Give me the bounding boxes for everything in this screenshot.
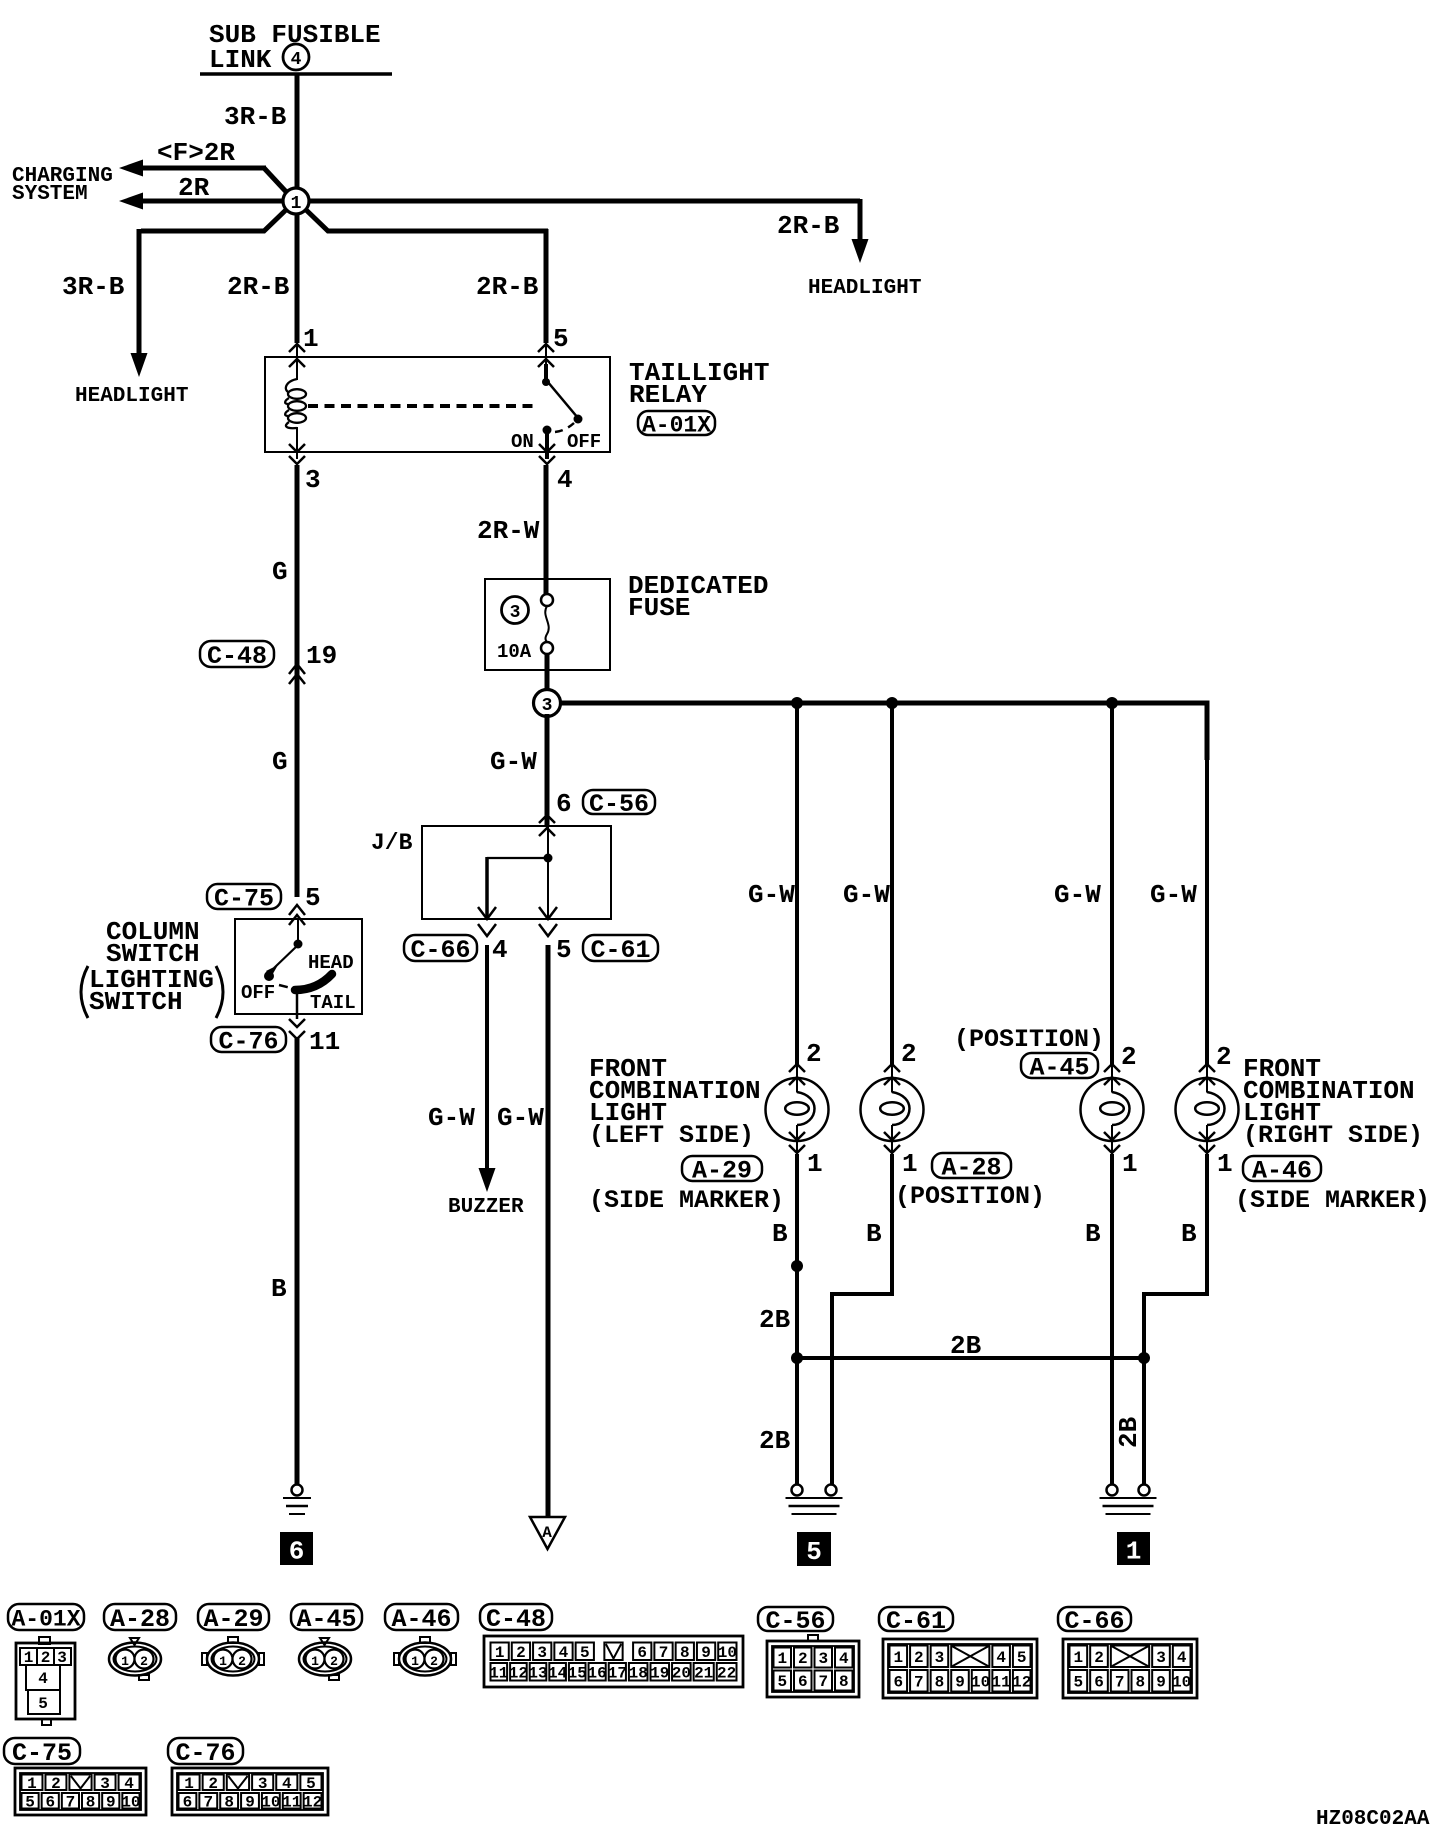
wire G-W lamp branch 1 [795,703,799,1066]
svg-text:C-75: C-75 [12,1739,72,1768]
svg-text:C-76: C-76 [218,1028,278,1057]
svg-text:2: 2 [914,1649,924,1667]
svg-text:4: 4 [282,1775,292,1793]
svg-text:HEADLIGHT: HEADLIGHT [808,277,921,300]
ground reference box 6 [280,1532,313,1565]
svg-text:5: 5 [38,1695,48,1713]
column switch input lead [297,919,299,943]
connector chevrons at A-28 pin 2 [884,1064,900,1072]
junction dot at lamp wire 1 [791,697,803,709]
svg-text:1: 1 [893,1649,903,1667]
wire G-W lamp branch 3 [1110,703,1114,1066]
svg-text:2: 2 [901,1039,917,1069]
svg-text:4: 4 [291,50,302,70]
svg-text:2: 2 [140,1654,148,1669]
svg-text:1: 1 [184,1775,194,1793]
svg-text:3: 3 [305,465,321,495]
svg-text:6: 6 [893,1673,903,1691]
connector chevrons C-48 pin 19 [289,664,305,674]
svg-text:3: 3 [542,696,553,716]
arrow down to headlight (left) [131,353,148,377]
connector chevrons at A-28 pin 1 [884,1132,900,1140]
wire branch down-left from junction 1 [141,206,290,231]
svg-text:B: B [866,1219,882,1249]
svg-text:2R-W: 2R-W [477,516,540,546]
column switch box [235,919,362,1014]
svg-text:3: 3 [258,1775,268,1793]
svg-text:(SIDE MARKER): (SIDE MARKER) [589,1186,784,1215]
svg-text:4: 4 [559,1644,569,1662]
svg-text:B: B [772,1219,788,1249]
arrow to charging system (upper) [119,160,143,177]
svg-text:3: 3 [537,1644,547,1662]
relay switch OFF contact dot [574,415,583,424]
svg-text:5: 5 [553,324,569,354]
svg-text:7: 7 [203,1793,213,1811]
connector A-46 bubble (table) [385,1604,458,1630]
svg-text:5: 5 [1074,1673,1084,1691]
svg-text:ON: ON [511,431,534,453]
connector chevrons C-56 pin 6 [539,815,555,823]
svg-text:1: 1 [807,1149,823,1179]
connector chevrons C-61 pin 5 [539,907,557,919]
big parenthesis left [81,966,88,1018]
svg-text:6: 6 [637,1644,647,1662]
svg-text:A-45: A-45 [1029,1054,1089,1083]
column switch pivot dot [294,940,303,949]
svg-text:1: 1 [27,1775,37,1793]
relay connector bubble A-01X [638,411,715,435]
fuse element F3 10A [541,594,553,606]
svg-text:C-75: C-75 [214,885,274,914]
svg-text:14: 14 [548,1664,568,1682]
wire 2R-B down to relay pin 5 [544,229,549,343]
svg-text:2: 2 [238,1654,246,1669]
svg-text:2: 2 [806,1039,822,1069]
arrow to charging system (lower) [119,193,143,210]
connector A-45 pinout drawing [299,1643,351,1676]
svg-text:C-76: C-76 [175,1739,235,1768]
svg-text:18: 18 [629,1664,648,1682]
wire G-W lamp branch 2 [890,703,894,1066]
svg-text:3: 3 [935,1649,945,1667]
svg-text:8: 8 [86,1793,96,1811]
relay switch output lead [545,430,549,459]
svg-text:7: 7 [1115,1673,1125,1691]
svg-text:G-W: G-W [490,747,537,777]
svg-text:9: 9 [955,1673,965,1691]
relay switch pivot dot [542,378,550,386]
relay coil lead wire [296,344,298,380]
svg-text:3: 3 [100,1775,110,1793]
svg-text:8: 8 [224,1793,234,1811]
relay coil bottom lead [296,427,298,459]
svg-text:10: 10 [971,1673,990,1691]
svg-text:C-56: C-56 [589,790,649,819]
svg-text:9: 9 [1156,1673,1166,1691]
svg-text:20: 20 [672,1664,691,1682]
svg-text:19: 19 [306,641,337,671]
svg-text:FUSE: FUSE [628,593,690,623]
svg-text:3R-B: 3R-B [62,272,125,302]
connector C-48 bubble [200,641,274,667]
connector C-76 bubble (table) [168,1738,243,1764]
junction block J/B box [422,826,611,919]
svg-text:2R-B: 2R-B [227,272,290,302]
svg-text:5: 5 [806,1537,822,1567]
svg-text:11: 11 [282,1793,301,1811]
svg-text:8: 8 [935,1673,945,1691]
svg-text:8: 8 [1136,1673,1146,1691]
svg-text:2B: 2B [1114,1416,1144,1448]
svg-text:4: 4 [557,465,573,495]
svg-text:2: 2 [208,1775,218,1793]
svg-text:1: 1 [411,1654,419,1669]
svg-text:HEAD: HEAD [308,952,354,974]
svg-text:7: 7 [66,1793,76,1811]
svg-text:2: 2 [516,1644,526,1662]
wire 2R-B down to relay pin 1 [295,206,300,343]
wire 2R-B long feed right from junction 1 [298,199,860,204]
svg-text:G-W: G-W [1150,880,1197,910]
connector C-48 bubble (table) [480,1604,552,1630]
taillight relay box A-01X [265,357,610,452]
column switch TAIL-HEAD sector arc [295,974,332,990]
svg-text:<F>2R: <F>2R [157,138,235,168]
svg-text:A-45: A-45 [296,1605,356,1634]
svg-text:HEADLIGHT: HEADLIGHT [75,385,188,408]
relay mechanical link (dashed) [308,404,534,408]
connector C-61 bubble (table) [879,1607,953,1631]
svg-text:1: 1 [121,1654,129,1669]
svg-text:6: 6 [289,1537,305,1567]
svg-text:B: B [1181,1219,1197,1249]
svg-text:6: 6 [798,1673,808,1691]
J/B internal junction dot [544,854,553,863]
svg-text:(LEFT SIDE): (LEFT SIDE) [589,1121,754,1150]
connector C-48 pinout drawing [484,1636,743,1687]
svg-text:5: 5 [777,1673,787,1691]
wire G-W to buzzer [485,945,489,1168]
connector chevrons at relay pin 5 [538,344,554,352]
svg-text:7: 7 [818,1673,828,1691]
svg-text:B: B [1085,1219,1101,1249]
wire B from column switch to ground [295,1037,300,1485]
svg-text:C-48: C-48 [486,1605,546,1634]
wire from fuse to junction 3 [545,654,550,692]
svg-text:G-W: G-W [843,880,890,910]
connector C-76 bubble [211,1027,286,1052]
front combination light left position bulb A-28 [861,1078,924,1141]
svg-text:A-46: A-46 [1252,1157,1312,1186]
svg-text:6: 6 [1094,1673,1104,1691]
svg-text:2: 2 [51,1775,61,1793]
svg-text:LINK: LINK [209,45,272,75]
svg-text:C-66: C-66 [1064,1607,1124,1636]
wire B lamp 3 to ground [1111,1141,1113,1155]
svg-text:B: B [271,1274,287,1304]
svg-text:2B: 2B [759,1426,791,1456]
svg-text:RELAY: RELAY [629,380,707,410]
svg-text:1: 1 [1074,1649,1084,1667]
svg-text:2B: 2B [759,1305,791,1335]
connector A-28 bubble (table) [104,1604,176,1630]
J/B internal wire branch [487,857,549,859]
svg-text:2: 2 [1216,1042,1232,1072]
svg-text:4: 4 [1177,1649,1187,1667]
svg-text:C-56: C-56 [765,1607,825,1636]
connector A-28 bubble [932,1153,1011,1178]
junction dot 2B bus left [791,1352,803,1364]
connector chevrons at A-46 pin 2 [1199,1064,1215,1072]
connector A-01X bubble (table) [8,1604,84,1630]
svg-text:G-W: G-W [748,880,795,910]
svg-text:5: 5 [556,935,572,965]
svg-text:7: 7 [914,1673,924,1691]
wire branch down-right from junction 1 [302,206,548,231]
junction node 3 [534,690,561,717]
wire to charging system (lower) [142,199,294,204]
svg-text:3: 3 [818,1650,828,1668]
svg-text:1: 1 [311,1654,319,1669]
svg-text:3R-B: 3R-B [224,102,287,132]
connector C-75 pinout drawing [15,1768,146,1815]
svg-text:2B: 2B [950,1331,982,1361]
junction dot 2B bus right [1138,1352,1150,1364]
svg-text:(POSITION): (POSITION) [954,1025,1104,1054]
svg-text:12: 12 [509,1664,528,1682]
relay switch ON contact dot [543,426,552,435]
dedicated fuse box [485,579,610,670]
svg-text:9: 9 [701,1644,711,1662]
svg-text:2: 2 [798,1650,808,1668]
connector chevrons at A-45 pin 2 [1104,1064,1120,1072]
wire G-W to taillights (net A) [546,945,551,1517]
ground symbol (left) [292,1485,303,1496]
svg-text:3: 3 [510,603,521,623]
connector C-66 bubble [404,935,477,961]
wire 2B ground bus [797,1356,1144,1360]
svg-text:4: 4 [839,1650,849,1668]
svg-text:10: 10 [718,1644,737,1662]
connector chevrons C-75 pin 5 [289,905,305,915]
svg-text:12: 12 [1012,1673,1031,1691]
column switch throw dashes [279,985,291,988]
svg-text:OFF: OFF [567,431,601,453]
connector C-61 bubble [583,935,658,961]
svg-text:A-46: A-46 [391,1605,451,1634]
svg-text:G-W: G-W [428,1103,475,1133]
connector C-66 pinout drawing [1063,1639,1197,1698]
junction node 1 [283,188,309,214]
connector A-45 bubble [1021,1053,1098,1078]
connector A-29 bubble (table) [198,1604,269,1630]
ground reference box 5 [797,1532,831,1566]
svg-text:1: 1 [1122,1149,1138,1179]
svg-text:4: 4 [38,1670,48,1688]
svg-text:21: 21 [694,1664,713,1682]
svg-text:5: 5 [25,1793,35,1811]
wire G-W from junction 3 to J/B [545,714,550,826]
svg-text:6: 6 [183,1793,193,1811]
svg-text:2: 2 [1094,1649,1104,1667]
svg-text:A-29: A-29 [203,1605,263,1634]
svg-text:C-48: C-48 [207,642,267,671]
wire B lamp 2 stepped to ground [891,1141,893,1155]
connector chevrons C-66 pin 4 [478,907,496,919]
svg-text:6: 6 [45,1793,55,1811]
wire G from relay pin 3 [295,465,300,897]
front combination light right side-marker bulb A-46 [1176,1078,1239,1141]
svg-text:1: 1 [303,324,319,354]
svg-text:1: 1 [1126,1537,1142,1567]
wire G-W bus from junction 3 to right [560,703,1207,760]
svg-text:11: 11 [489,1664,508,1682]
off-page net A triangle [530,1517,565,1549]
svg-text:SWITCH: SWITCH [89,987,183,1017]
connector A-46 bubble [1243,1156,1321,1181]
svg-text:A-01X: A-01X [642,412,711,438]
svg-text:1: 1 [902,1149,918,1179]
relay coil L1 [286,379,297,392]
svg-text:15: 15 [568,1664,587,1682]
junction dot branch1/branch2 commoning [791,1260,803,1272]
svg-text:9: 9 [245,1793,255,1811]
svg-text:17: 17 [608,1664,627,1682]
svg-text:1: 1 [495,1644,505,1662]
ground symbol (center pair) [792,1485,803,1496]
connector chevrons at relay pin 4 [539,444,555,452]
wire 3R-B from sub fusible link down to junction 1 [295,74,300,196]
front combination light left side-marker bulb A-29 [766,1078,829,1141]
sub fusible link bus bar [200,72,392,76]
arrow to buzzer [479,1168,496,1192]
big parenthesis right [216,966,223,1018]
svg-text:1: 1 [291,194,302,214]
svg-text:6: 6 [556,789,572,819]
svg-text:2: 2 [1121,1042,1137,1072]
svg-text:4: 4 [996,1649,1006,1667]
svg-text:(SIDE MARKER): (SIDE MARKER) [1235,1186,1430,1215]
svg-text:A: A [542,1524,552,1542]
svg-text:13: 13 [528,1664,547,1682]
svg-text:2: 2 [430,1654,438,1669]
front combination light right position bulb A-45 [1081,1078,1144,1141]
svg-text:5: 5 [580,1644,590,1662]
svg-text:9: 9 [106,1793,116,1811]
svg-text:A-28: A-28 [110,1605,170,1634]
svg-text:10: 10 [1172,1673,1191,1691]
circled fuse number 3 [502,597,529,624]
svg-text:2: 2 [330,1654,338,1669]
svg-text:1: 1 [777,1650,787,1668]
svg-text:16: 16 [588,1664,607,1682]
wire 2R-B corner down to headlight (right) [858,199,863,242]
svg-text:10: 10 [261,1793,280,1811]
connector chevrons at A-46 pin 1 [1199,1132,1215,1140]
wire 3R-B down to headlight (left) [137,229,142,358]
connector A-29 pinout drawing [207,1643,259,1676]
connector C-66 bubble (table) [1058,1607,1131,1631]
J/B internal wire down [547,826,549,919]
svg-text:BUZZER: BUZZER [448,1196,524,1219]
connector chevrons at A-29 pin 1 [789,1132,805,1140]
connector chevrons at relay pin 1 [289,344,305,352]
connector C-75 bubble (table) [4,1738,80,1764]
svg-text:C-61: C-61 [886,1607,946,1636]
svg-text:A-01X: A-01X [11,1606,80,1632]
svg-text:10: 10 [121,1793,140,1811]
svg-text:(POSITION): (POSITION) [895,1182,1045,1211]
connector A-01X pinout drawing [39,1637,50,1644]
svg-text:HZ08C02AA: HZ08C02AA [1316,1808,1430,1830]
svg-text:2R-B: 2R-B [777,211,840,241]
svg-text:8: 8 [839,1673,849,1691]
connector A-46 pinout drawing [399,1643,451,1676]
svg-text:11: 11 [309,1027,340,1057]
svg-text:5: 5 [306,1775,316,1793]
relay switch lead from pin 5 [545,344,547,366]
wire B lamp 1 to ground [796,1141,798,1155]
connector C-76 pinout drawing [172,1768,328,1815]
svg-text:2R-B: 2R-B [476,272,539,302]
svg-text:4: 4 [124,1775,134,1793]
svg-text:G: G [272,557,288,587]
svg-text:SYSTEM: SYSTEM [12,183,88,206]
wire G-W lamp branch 4 [1205,760,1209,1066]
circled 4 (sub fusible link number) [283,44,309,70]
wire to charging system (upper) with diagonal [264,168,290,196]
svg-text:8: 8 [680,1644,690,1662]
connector chevrons at A-45 pin 1 [1104,1132,1120,1140]
ground symbol (right pair) [1107,1485,1118,1496]
svg-text:(RIGHT SIDE): (RIGHT SIDE) [1243,1121,1423,1150]
ground reference box 1 [1117,1532,1150,1565]
connector C-75 bubble [207,884,281,909]
svg-text:1: 1 [1217,1149,1233,1179]
svg-text:11: 11 [992,1673,1011,1691]
wire B lamp 4 stepped to ground [1206,1141,1208,1155]
svg-text:G-W: G-W [497,1103,544,1133]
connector A-45 bubble (table) [291,1604,362,1630]
connector C-56 pinout drawing [808,1635,818,1641]
connector chevrons C-76 pin 11 [289,1019,305,1027]
svg-text:G-W: G-W [1054,880,1101,910]
svg-text:19: 19 [650,1664,669,1682]
junction dot at lamp wire 3 [1106,697,1118,709]
svg-text:3: 3 [1156,1649,1166,1667]
svg-text:TAIL: TAIL [310,992,356,1014]
svg-text:22: 22 [717,1664,736,1682]
svg-text:C-61: C-61 [590,936,650,965]
svg-text:A-29: A-29 [692,1157,752,1186]
connector C-56 bubble (table) [758,1607,833,1631]
connector chevrons at A-29 pin 2 [789,1064,805,1072]
svg-text:A-28: A-28 [941,1154,1001,1183]
connector C-56 bubble [583,790,655,814]
arrow down to headlight (right) [852,239,869,263]
svg-text:J/B: J/B [371,830,413,856]
svg-text:1: 1 [219,1654,227,1669]
relay switch movable contact arm [547,381,578,418]
svg-text:4: 4 [492,935,508,965]
svg-text:10A: 10A [497,641,532,663]
relay switch throw arc (dashed) [555,423,574,432]
column switch OFF contact dot [264,971,274,981]
svg-text:G: G [272,747,288,777]
column switch movable contact arm [274,945,298,968]
connector A-28 pinout drawing [109,1643,161,1676]
